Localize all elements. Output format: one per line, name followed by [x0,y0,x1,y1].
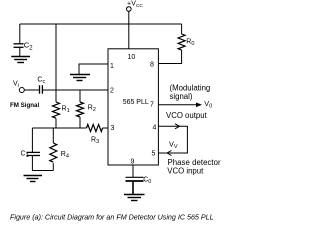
capacitor C1 [27,152,41,155]
svg-text:signal): signal) [170,92,193,101]
resistor R0 [178,34,185,50]
node Vcc terminal [127,7,132,12]
wire top bus [20,23,182,25]
svg-text:5: 5 [152,151,156,158]
svg-text:8: 8 [150,62,154,69]
wire Cc to pin 2 [42,89,108,91]
wire R4 to ground wire [52,163,54,170]
wire R3 to pin 3 [103,127,109,129]
node Vi input terminal [19,88,24,93]
wire C2 to ground [19,47,21,56]
svg-text:9: 9 [131,159,135,166]
svg-text:FM Signal: FM Signal [10,102,39,109]
wire R2 branch [79,90,81,102]
wire C1 stem [31,128,33,152]
wire R2 to bottom node [79,117,81,128]
svg-text:2: 2 [110,88,114,95]
wire bottom node [32,127,86,129]
svg-text:4: 4 [153,125,157,132]
wire pin 7 output [158,104,199,106]
svg-text:VCO output: VCO output [166,111,208,120]
wire C2 stem [19,24,21,44]
svg-text:10: 10 [128,54,136,61]
resistor R3 [87,124,103,131]
svg-text:1: 1 [110,63,114,70]
resistor R2 [77,102,84,117]
arrowhead pin4 chevron [175,124,180,129]
wire C0 to ground [132,181,134,194]
wire pin 1 to ground [79,64,108,75]
wire pin 4 loop [158,126,187,153]
wire R0 bottom to pin 8 [158,50,181,64]
arrowhead pin5 chevron [167,151,172,156]
capacitor Cc [40,85,43,94]
ground (pin 1) [70,75,90,81]
capacitor C0 [126,177,144,181]
svg-text:VCO input: VCO input [167,166,204,175]
resistor R1 [53,102,60,118]
wire R4 stem from bottom node [52,128,54,143]
wire Vcc to pin 10 [128,11,130,49]
wire Vi to Cc [24,89,39,91]
svg-text:7: 7 [150,101,154,108]
wire R0 top stem [181,24,183,34]
svg-text:Figure (a): Circuit Diagram fo: Figure (a): Circuit Diagram for an FM De… [10,213,214,221]
ground (C1/R4) [24,176,43,182]
wire C1 to ground node [32,156,53,171]
op-amp U1 IC 565 PLL box [108,49,158,165]
wire pin 9 stem [132,165,134,177]
capacitor C2 [14,44,24,48]
wire R1 branch from top bus [55,24,57,102]
ground (C2) [11,57,30,63]
ground (C0) [124,195,145,201]
wire R1 to bottom node [55,119,57,129]
svg-text:565 PLL: 565 PLL [123,99,149,106]
svg-text:3: 3 [111,125,115,132]
resistor R4 [50,143,57,162]
arrowhead Vo [196,103,202,108]
